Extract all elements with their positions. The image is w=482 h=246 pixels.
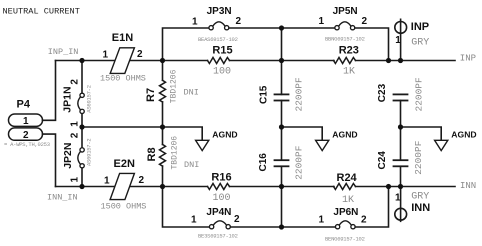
svg-text:2200PF: 2200PF (413, 140, 424, 175)
wire P4 pin1 to row1 (43, 61, 56, 121)
svg-text:C16: C16 (258, 153, 269, 172)
svg-text:1500 OHMS: 1500 OHMS (100, 74, 146, 84)
svg-text:1: 1 (104, 176, 110, 187)
svg-text:1: 1 (69, 121, 80, 127)
svg-text:2: 2 (362, 16, 368, 27)
wire top bus left segment (163, 28, 209, 61)
jumper JP2N (62, 127, 93, 187)
wire P4 pin2 down to row2 (43, 134, 56, 186)
svg-text:INN_IN: INN_IN (47, 193, 78, 203)
capacitor C16 (258, 145, 305, 180)
svg-text:INN: INN (460, 181, 476, 191)
jumper JP5N (319, 6, 368, 43)
svg-text:GRY: GRY (411, 191, 429, 202)
middle column wire bottom (281, 166, 283, 227)
svg-text:2: 2 (23, 130, 29, 141)
svg-text:INP: INP (460, 53, 476, 63)
wire top bus right segment and corner down (355, 28, 389, 61)
svg-text:AGND: AGND (451, 130, 476, 140)
svg-text:AS69157-2: AS69157-2 (86, 85, 93, 112)
svg-text:BBNG69157-102: BBNG69157-102 (325, 36, 365, 43)
svg-text:JP6N: JP6N (333, 207, 358, 218)
svg-text:1500 OHMS: 1500 OHMS (101, 202, 147, 212)
svg-text:R23: R23 (339, 45, 359, 57)
right column wire bottom (400, 166, 402, 186)
svg-text:INP: INP (411, 21, 429, 33)
wire row1 (INP_IN row) (56, 60, 163, 62)
svg-text:AGND: AGND (332, 130, 357, 140)
svg-text:1: 1 (395, 193, 401, 204)
svg-text:2: 2 (361, 215, 367, 226)
svg-text:JP3N: JP3N (207, 6, 232, 17)
wire R7 to AGND row (162, 102, 164, 145)
jumper JP1N (62, 61, 93, 128)
svg-text:2: 2 (234, 214, 240, 225)
svg-text:JP1N: JP1N (62, 86, 74, 112)
svg-text:TBD1206: TBD1206 (171, 136, 180, 170)
svg-text:1: 1 (103, 50, 109, 61)
middle column wire top (281, 28, 283, 94)
wire R8 down to bottom bus (163, 166, 210, 227)
svg-text:R24: R24 (337, 172, 358, 184)
resistor R7 (145, 69, 199, 103)
ferrite bead E1N (100, 32, 146, 84)
svg-text:1: 1 (23, 116, 29, 127)
resistor R23 (334, 45, 456, 78)
svg-text:1K: 1K (342, 195, 354, 206)
jumper JP3N (192, 6, 242, 43)
svg-text:DNI: DNI (184, 160, 199, 170)
svg-text:2: 2 (70, 132, 81, 138)
wire top bus middle segment (229, 27, 335, 29)
ground AGND 1 (82, 127, 238, 151)
resistor R8 (146, 136, 199, 170)
wire bottom bus right corner up (355, 187, 388, 228)
svg-text:C23: C23 (377, 83, 388, 102)
wire row2 (INN_IN row) (56, 186, 163, 188)
capacitor C15 (258, 77, 304, 112)
svg-text:C15: C15 (258, 85, 269, 104)
svg-text:JP2N: JP2N (62, 143, 74, 169)
svg-text:DNI: DNI (184, 87, 199, 97)
svg-text:R15: R15 (212, 45, 232, 57)
svg-text:2200PF: 2200PF (294, 77, 305, 112)
connector P4 (4, 99, 50, 149)
svg-text:AGND: AGND (212, 130, 237, 140)
capacitor C24 (377, 140, 424, 175)
svg-text:GRY: GRY (411, 38, 429, 49)
svg-text:2: 2 (139, 175, 145, 186)
svg-text:1K: 1K (343, 66, 355, 77)
wire bottom bus middle (231, 226, 336, 228)
svg-text:1: 1 (319, 215, 325, 226)
connector INN (395, 187, 430, 222)
svg-text:1: 1 (395, 35, 401, 46)
svg-text:NEUTRAL CURRENT: NEUTRAL CURRENT (3, 7, 80, 17)
ferrite bead E2N (101, 158, 147, 212)
svg-text:2200PF: 2200PF (294, 145, 305, 180)
main vertical column upper (to R7) (162, 61, 164, 81)
svg-text:1: 1 (191, 215, 197, 226)
jumper JP4N (191, 207, 240, 240)
svg-text:BE3S69157-102: BE3S69157-102 (198, 233, 238, 240)
svg-text:2: 2 (69, 79, 80, 85)
svg-text:JP5N: JP5N (333, 6, 358, 17)
svg-text:P4: P4 (17, 99, 31, 111)
ground AGND 2 (282, 127, 358, 151)
svg-text:100: 100 (213, 193, 231, 204)
right column wire mid (400, 101, 402, 161)
svg-text:TBD1206: TBD1206 (170, 69, 179, 103)
svg-text:C24: C24 (377, 151, 388, 170)
svg-text:= A-WPS,TH,0253: = A-WPS,TH,0253 (4, 141, 50, 148)
connector INP (395, 19, 430, 60)
resistor R16 (163, 171, 335, 203)
capacitor C23 (377, 77, 425, 112)
svg-text:JP4N: JP4N (206, 207, 231, 218)
svg-text:R16: R16 (211, 171, 231, 183)
svg-text:2: 2 (137, 49, 143, 60)
svg-text:E1N: E1N (112, 32, 133, 44)
svg-text:1: 1 (319, 16, 325, 27)
svg-text:R7: R7 (145, 88, 157, 102)
svg-text:2200PF: 2200PF (414, 77, 425, 112)
resistor R15 (163, 45, 335, 78)
svg-text:INP_IN: INP_IN (48, 47, 79, 57)
svg-text:R8: R8 (146, 147, 158, 161)
svg-text:1: 1 (70, 177, 81, 183)
ground AGND 3 (401, 127, 477, 151)
middle column wire mid (281, 101, 283, 161)
resistor R24 (334, 172, 456, 206)
svg-text:2: 2 (236, 16, 242, 27)
svg-text:BENG69157-102: BENG69157-102 (325, 236, 365, 243)
svg-text:AS69157-2: AS69157-2 (86, 139, 93, 166)
svg-text:BEAS69157-102: BEAS69157-102 (198, 36, 238, 43)
svg-text:E2N: E2N (114, 158, 135, 170)
svg-text:INN: INN (411, 202, 430, 214)
jumper JP6N (319, 207, 368, 243)
svg-text:1: 1 (192, 17, 198, 28)
svg-text:100: 100 (213, 67, 231, 78)
